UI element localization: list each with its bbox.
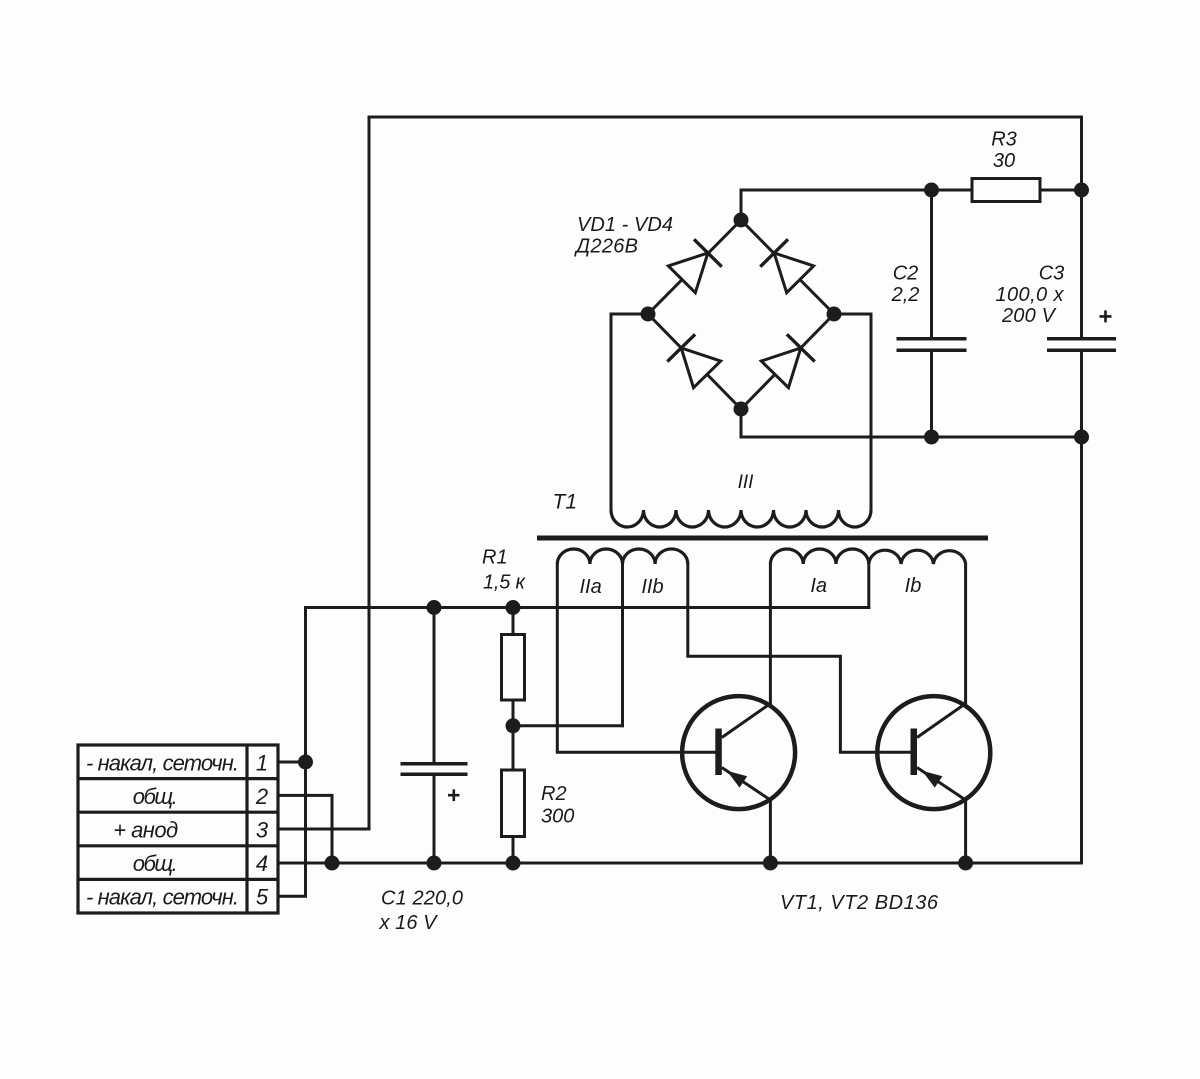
wire winding IIa left stub to VT1 base [557,564,715,752]
node R2 bottom [506,856,521,871]
capacitor C3 plates [1047,339,1116,351]
winding IIa [557,549,622,564]
transistor VT2 [877,696,990,809]
svg-text:IIa: IIa [579,576,601,598]
connector block [78,745,278,913]
wire winding IIa/IIb mid stub [621,564,624,726]
svg-text:R2: R2 [541,783,567,805]
wire pin 3 to outer loop [278,828,369,831]
node C1 bottom [427,856,442,871]
wire C3 column [1080,190,1083,437]
node C1 top [427,600,442,615]
svg-text:C1 220,0: C1 220,0 [381,888,463,910]
svg-text:200 V: 200 V [1001,305,1057,327]
wire VT2 emitter to bottom rail [964,800,967,863]
svg-text:C2: C2 [893,263,919,285]
svg-text:C3: C3 [1039,263,1065,285]
resistor R3 [972,179,1040,202]
svg-text:- накал, сеточн.: - накал, сеточн. [86,751,239,776]
svg-text:Д226В: Д226В [574,236,638,258]
wire pin1/pin5 vertical [278,608,306,897]
diode VD3 (bottom-left of bridge) [667,334,721,388]
svg-text:x 16 V: x 16 V [379,912,439,934]
node C2 top [924,183,939,198]
wire R1 bottom node to IIa/IIb mid stub [513,724,623,727]
node C3 top [1074,183,1089,198]
svg-text:VT1, VT2 BD136: VT1, VT2 BD136 [780,892,939,914]
wire bottom common rail [278,862,1082,865]
wire heater rail y607 [306,606,869,609]
svg-text:общ.: общ. [133,851,178,876]
wire R1/R2 column [512,608,515,864]
svg-text:IIb: IIb [641,576,663,598]
node VT1 emitter [763,856,778,871]
svg-text:VD1 - VD4: VD1 - VD4 [577,214,673,236]
node R1 top [506,600,521,615]
node R1 bottom [506,718,521,733]
wire outer loop: pin3 up left side, across top, down to R3 right node [369,117,1082,829]
wire right side down to bottom rail [1080,437,1083,863]
svg-text:30: 30 [993,150,1015,172]
node bridge left [641,307,656,322]
svg-text:1: 1 [256,751,268,776]
svg-text:5: 5 [256,884,269,909]
node bridge right [827,307,842,322]
svg-text:T1: T1 [553,491,578,514]
resistor R2 [502,770,525,837]
wire VT1 emitter to bottom rail [769,800,772,863]
transformer T1 core [537,536,988,541]
wire winding Ia left stub / VT1 collector [769,564,772,704]
svg-text:общ.: общ. [133,784,178,809]
svg-text:1,5 к: 1,5 к [483,572,527,594]
capacitor C1 plates [401,764,468,775]
wire winding IIb right stub to VT2 base [688,564,911,752]
wire winding Ia/Ib mid stub to heater rail [867,564,870,608]
svg-text:Ia: Ia [810,575,827,597]
winding Ib [869,550,966,564]
svg-text:- накал, сеточн.: - накал, сеточн. [86,884,239,909]
wire bridge bottom vertex to C2/C3 bottom row [741,409,1082,437]
wire winding Ib right stub / VT2 collector [964,564,967,704]
wire right vertex to winding III right stub [834,314,871,510]
capacitor C2 plates [897,339,967,351]
svg-text:R3: R3 [991,129,1017,151]
node C3 bottom [1074,430,1089,445]
svg-text:R1: R1 [482,547,508,569]
wire left vertex to winding III left stub [611,314,648,510]
svg-text:3: 3 [256,818,269,843]
svg-text:2: 2 [255,784,268,809]
svg-text:4: 4 [256,851,268,876]
node pin2 rail [325,856,340,871]
winding III [611,510,871,527]
resistor R1 [502,635,525,701]
wire pin2 to bottom rail [278,795,332,863]
diode VD4 (bottom-right of bridge) [761,334,815,388]
node bridge bottom [734,402,749,417]
node bridge top [734,213,749,228]
svg-text:III: III [738,472,755,493]
winding IIb [623,549,688,564]
diode VD2 (top-right of bridge) [760,239,814,293]
wire C2 column [930,190,933,437]
svg-text:+ анод: + анод [113,818,178,843]
node C2 bottom [924,430,939,445]
wire C1 column [433,608,436,864]
svg-text:100,0 x: 100,0 x [996,284,1065,306]
capacitor C3 plus [1100,310,1112,322]
svg-text:Ib: Ib [905,575,922,597]
wire bridge top vertex up to R3 row [741,190,972,220]
svg-text:300: 300 [541,806,574,828]
wire bridge diamond [648,220,834,409]
diode VD1 (top-left of bridge) [668,239,722,293]
node pin1 [298,755,313,770]
wire R3 right lead [1040,189,1082,192]
winding Ia [770,549,868,564]
transistor VT1 [682,696,795,809]
node VT2 emitter [958,856,973,871]
capacitor C1 plus [448,789,460,801]
svg-text:2,2: 2,2 [891,284,920,306]
